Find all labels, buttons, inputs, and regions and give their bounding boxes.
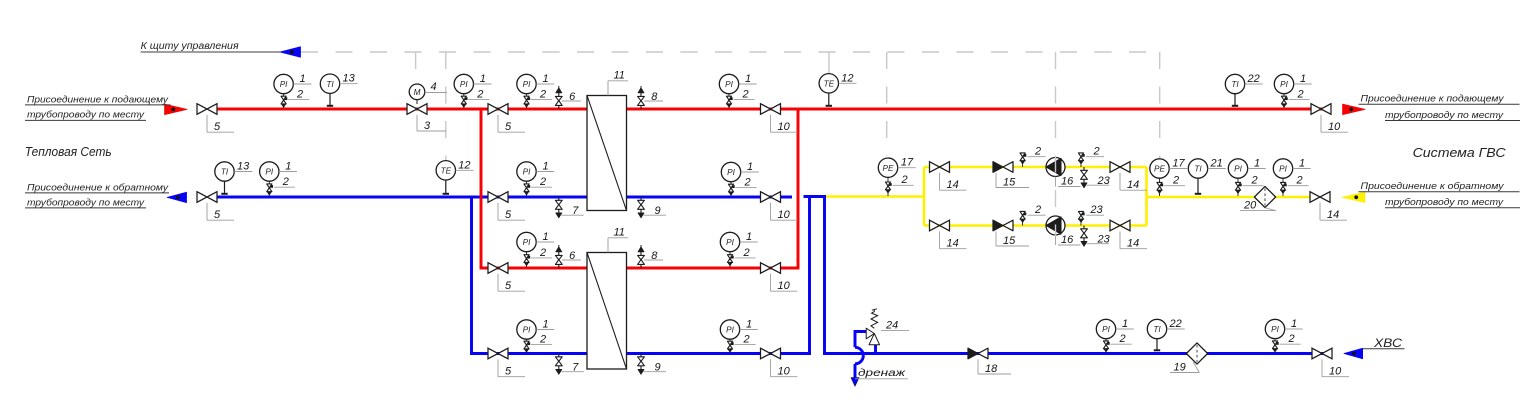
gauge cock (label 2) (524, 255, 529, 259)
svg-text:2: 2 (741, 88, 748, 100)
svg-text:4: 4 (431, 81, 437, 93)
gauge cock (label 2) (885, 182, 890, 186)
pressure gauge PI with labels 1/2 (526, 181, 528, 197)
svg-text:2: 2 (296, 88, 303, 100)
gauge cock (label 2) (1281, 96, 1286, 100)
svg-text:7: 7 (572, 205, 579, 217)
svg-text:21: 21 (1210, 158, 1223, 170)
flow flag: DHW circulation return (1343, 192, 1365, 202)
pipe: DHW return main right (yellow) (1147, 196, 1311, 199)
svg-text:2: 2 (282, 176, 289, 188)
label 23 leader (1087, 184, 1110, 186)
svg-text:2: 2 (539, 247, 546, 259)
svg-text:PI: PI (726, 238, 734, 247)
label 1 leader (536, 329, 554, 331)
pipe: heating return line (blue) (217, 196, 792, 199)
label 10 leader (1320, 115, 1322, 132)
air vent 8 (640, 265, 642, 269)
svg-text:1: 1 (1122, 318, 1128, 330)
label 2 leader (1164, 185, 1185, 187)
svg-text:TI: TI (1231, 80, 1239, 89)
gauge cock (label 2) (1157, 182, 1162, 186)
label 7 leader (561, 371, 584, 373)
svg-text:7: 7 (572, 362, 579, 374)
pressure gauge PI with labels 1/2 (526, 93, 528, 108)
svg-text:2: 2 (742, 333, 749, 345)
svg-text:1: 1 (1291, 318, 1297, 330)
valve 10 (gate valve) (761, 348, 781, 359)
svg-text:15: 15 (1003, 177, 1016, 189)
svg-text:23: 23 (1089, 204, 1103, 216)
gauge cock (label 2) (1235, 182, 1240, 186)
svg-text:PI: PI (265, 168, 273, 177)
valve 10 (gate valve) (761, 263, 781, 274)
pipe: cold water riser + XVC line (blue) (825, 196, 1333, 354)
svg-text:TI: TI (1194, 165, 1202, 174)
control drop to PE pos.17 (left) (886, 52, 888, 156)
label 14 leader (939, 173, 941, 190)
label 17 leader (1169, 168, 1187, 170)
label 22 leader (1245, 83, 1263, 85)
svg-text:2: 2 (476, 88, 483, 100)
svg-text:ХВС: ХВС (1373, 336, 1403, 350)
label 18 leader (977, 359, 979, 374)
svg-text:12: 12 (458, 159, 470, 171)
temperature sensor TE label 12 (828, 92, 830, 106)
svg-text:1: 1 (746, 319, 752, 331)
svg-text:2: 2 (1295, 175, 1302, 187)
svg-text:1: 1 (542, 319, 548, 331)
svg-text:трубопроводу по месту: трубопроводу по месту (27, 197, 145, 208)
label 11 leader (607, 81, 609, 96)
label 2 leader (531, 257, 552, 259)
label 23 leader (1086, 214, 1104, 216)
flow flag: supply from heat network (165, 104, 187, 114)
label 15 leader (995, 231, 997, 246)
label 14 leader (1119, 231, 1121, 248)
air vent 6 (558, 265, 560, 269)
label 2 leader (274, 186, 295, 188)
svg-text:Присоединение к подающему: Присоединение к подающему (1361, 94, 1505, 105)
svg-text:PI: PI (523, 326, 531, 335)
pressure gauge PI with labels 1/2 (526, 339, 528, 353)
drain outlet arrowhead (851, 378, 859, 387)
label 5 leader (497, 359, 499, 376)
label 12 leader (456, 169, 474, 171)
pressure gauge PI with labels 1/2 (728, 93, 730, 108)
label 2 leader (1028, 156, 1046, 158)
label 16 leader (1055, 177, 1057, 187)
svg-text:8: 8 (651, 250, 658, 262)
svg-text:14: 14 (947, 179, 959, 191)
svg-text:1: 1 (285, 161, 291, 173)
label 2 leader (468, 98, 489, 100)
label 1 leader (740, 329, 758, 331)
label 1 leader (1116, 328, 1134, 330)
label 1 leader (1294, 83, 1312, 85)
svg-text:10: 10 (1329, 366, 1342, 378)
pressure sensor PE with labels 17/2 (1159, 178, 1161, 197)
svg-text:TI: TI (221, 168, 229, 177)
valve 5 (gate valve) (197, 192, 217, 203)
label 6 leader (562, 100, 581, 102)
svg-text:10: 10 (1328, 121, 1341, 133)
label 3 leader (416, 115, 418, 131)
control signal bus (dashed) (301, 51, 1160, 53)
svg-text:16: 16 (1061, 234, 1074, 246)
label 17 leader (898, 167, 916, 169)
svg-text:TE: TE (441, 166, 452, 175)
signal line to control panel (141, 51, 280, 53)
label 2 leader (531, 343, 552, 345)
gauge cock 2 on branch (1022, 161, 1024, 167)
pressure gauge PI with labels 1/2 (463, 93, 465, 108)
svg-text:20: 20 (1243, 200, 1257, 212)
label 9 leader (644, 214, 667, 216)
check valve 15 (1003, 162, 1013, 173)
heat exchanger 11 (plate HX) (587, 96, 627, 211)
svg-text:1: 1 (1254, 158, 1260, 170)
svg-text:2: 2 (1034, 145, 1041, 157)
svg-text:PI: PI (725, 80, 733, 89)
label 2 leader (735, 257, 756, 259)
drain valve 23 (1083, 167, 1085, 170)
svg-text:2: 2 (539, 88, 546, 100)
svg-text:PI: PI (523, 238, 531, 247)
label 2 leader (288, 98, 309, 100)
valve 14 (gate valve) (930, 220, 950, 231)
label 2 leader (1086, 156, 1104, 158)
svg-text:11: 11 (614, 70, 625, 82)
gauge cock (label 2) (727, 341, 732, 345)
valve 14 (gate valve) (1110, 162, 1130, 173)
svg-text:13: 13 (237, 161, 250, 173)
flow flag: supply to building (1343, 104, 1365, 114)
valve 5 (gate valve) (488, 263, 508, 274)
label 10 leader (770, 359, 772, 376)
svg-text:11: 11 (614, 227, 625, 239)
pipe: pump manifold right header (yellow) (1145, 167, 1148, 226)
label 2 leader (1111, 343, 1132, 345)
thermometer TI label 13 (329, 93, 331, 107)
valve 14 (gate valve) (1310, 192, 1330, 203)
svg-text:9: 9 (655, 205, 661, 217)
svg-text:PI: PI (1279, 165, 1287, 174)
gauge cock (label 2) (524, 184, 529, 188)
pipe: blue header segment over risers (804, 195, 827, 198)
label 1 leader (741, 171, 759, 173)
valve 14 (gate valve) (1110, 220, 1130, 231)
label 12 leader (839, 82, 857, 84)
svg-text:2: 2 (539, 333, 546, 345)
drain valve 7 (558, 354, 560, 357)
svg-text:дренаж: дренаж (858, 367, 906, 379)
svg-text:TI: TI (326, 80, 334, 89)
pressure gauge PI with labels 1/2 (729, 339, 731, 353)
pressure gauge PI with labels 1/2 (526, 251, 528, 267)
valve 5 (gate valve) (488, 348, 508, 359)
svg-text:5: 5 (505, 366, 512, 378)
pressure gauge PI with labels 1/2 (1283, 93, 1285, 108)
pump 16 (1046, 216, 1065, 235)
thermometer TI label 13 (224, 181, 226, 195)
svg-text:PE: PE (1154, 165, 1165, 174)
filter 20 (strainer) (1254, 186, 1275, 207)
svg-text:PI: PI (280, 80, 288, 89)
label 16 leader (1055, 235, 1057, 245)
label 8 leader (644, 100, 663, 102)
flow flag: to control panel (280, 47, 301, 57)
svg-text:1: 1 (542, 161, 548, 173)
pipe: pump branch bottom (yellow) (924, 224, 1147, 227)
svg-text:14: 14 (1327, 209, 1339, 221)
svg-text:5: 5 (505, 121, 512, 133)
label 13 leader (234, 171, 252, 173)
gauge cock (label 2) (524, 341, 529, 345)
label 8 leader (644, 259, 663, 261)
label 2 leader (1288, 185, 1309, 187)
label 1 leader (536, 83, 554, 85)
svg-text:2: 2 (900, 174, 907, 186)
pipe: pump manifold left header (yellow) (923, 167, 926, 226)
control drop to TE pos.12 (return line) (445, 52, 447, 160)
valve 14 (gate valve) (930, 162, 950, 173)
svg-text:PE: PE (883, 164, 894, 173)
pump 16 (1046, 158, 1065, 177)
svg-text:PI: PI (460, 80, 468, 89)
label 14 leader (1319, 203, 1321, 220)
svg-text:PI: PI (1102, 325, 1110, 334)
svg-text:TI: TI (1153, 325, 1161, 334)
svg-text:2: 2 (742, 247, 749, 259)
svg-text:1: 1 (1299, 158, 1305, 170)
pressure gauge PI with labels 1/2 (283, 93, 285, 108)
svg-text:10: 10 (778, 280, 791, 292)
label 1 leader (740, 241, 758, 243)
valve 5 (gate valve) (488, 104, 508, 115)
svg-text:12: 12 (841, 72, 853, 84)
label 10 leader (770, 115, 772, 132)
svg-text:1: 1 (300, 73, 306, 85)
label 7 leader (561, 214, 584, 216)
svg-text:2: 2 (1172, 175, 1179, 187)
drain valve 23 (1083, 226, 1085, 229)
label 2 leader (1028, 214, 1046, 216)
gauge cock (label 2) (524, 96, 529, 100)
gauge cock (label 2) (727, 255, 732, 259)
svg-text:К щиту управления: К щиту управления (141, 41, 240, 52)
svg-text:22: 22 (1247, 73, 1260, 85)
thermometer TI label 22 (1234, 93, 1236, 106)
valve 10 (gate valve) (1312, 348, 1332, 359)
pressure gauge PI with labels 1/2 (729, 251, 731, 267)
heat exchanger 11 (plate HX) (587, 253, 627, 370)
svg-text:PI: PI (1280, 80, 1288, 89)
label 5 leader (497, 115, 499, 132)
label 1 leader (474, 83, 492, 85)
control drop to valve actuator M (415, 52, 417, 84)
control drop to pumps pos.16 (1055, 52, 1057, 236)
pipe: red riser + HX2 supply run (481, 109, 798, 268)
svg-text:13: 13 (343, 73, 356, 85)
label 13 leader (340, 83, 358, 85)
svg-text:Тепловая Сеть: Тепловая Сеть (25, 145, 112, 159)
svg-text:3: 3 (424, 120, 431, 132)
gauge cock 23 on branch (1080, 220, 1082, 226)
motor actuator M, label 4 (416, 100, 418, 105)
label 2 leader (1289, 98, 1310, 100)
svg-text:10: 10 (778, 209, 791, 221)
pressure gauge PI with labels 1/2 (1237, 178, 1239, 197)
label 5 leader (497, 274, 499, 291)
label 19 leader (1193, 362, 1199, 373)
pipe: DHW circulation main (yellow) (826, 195, 924, 198)
svg-text:16: 16 (1061, 176, 1074, 188)
svg-text:15: 15 (1003, 235, 1016, 247)
svg-text:14: 14 (1127, 179, 1139, 191)
svg-text:1: 1 (542, 231, 548, 243)
gauge cock (label 2) (728, 184, 733, 188)
svg-text:PI: PI (523, 80, 531, 89)
flow flag: cold water inlet (1344, 348, 1363, 358)
gauge cock (label 2) (461, 96, 466, 100)
label 1 leader (293, 83, 311, 85)
svg-text:PI: PI (727, 168, 735, 177)
drain valve 7 (558, 197, 560, 200)
svg-text:2: 2 (539, 176, 546, 188)
svg-text:трубопроводу по месту: трубопроводу по месту (1385, 110, 1504, 121)
svg-text:5: 5 (214, 121, 221, 133)
label 10 leader (1321, 359, 1323, 376)
air vent 8 (640, 106, 642, 110)
pressure gauge PI with labels 1/2 (1274, 338, 1276, 353)
label 1 leader (536, 171, 554, 173)
svg-text:10: 10 (778, 121, 791, 133)
svg-text:1: 1 (480, 73, 486, 85)
gauge cock (label 2) (726, 96, 731, 100)
label 21 leader (1208, 168, 1226, 170)
control drop to PE pos.17 (right) (1159, 52, 1161, 160)
svg-text:2: 2 (1296, 88, 1303, 100)
svg-text:23: 23 (1097, 234, 1111, 246)
label 14 leader (939, 231, 941, 248)
svg-text:5: 5 (505, 280, 512, 292)
label 15 leader (995, 173, 997, 188)
label 2 leader (531, 98, 552, 100)
svg-text:2: 2 (1118, 333, 1125, 345)
label 1 leader (1248, 168, 1266, 170)
svg-text:5: 5 (214, 209, 221, 221)
label 10 leader (770, 203, 772, 220)
label 24 leader (881, 330, 909, 332)
gauge cock (label 2) (267, 184, 272, 188)
svg-text:14: 14 (1127, 238, 1139, 250)
flow flag: return to heat network (167, 192, 186, 202)
label 23 leader (1087, 243, 1110, 245)
gauge cock 2 on branch (1080, 161, 1082, 167)
thermometer TI label 22 (1156, 338, 1158, 351)
safety valve 24 (angle, spring) (866, 328, 874, 339)
label 22 leader (1167, 328, 1185, 330)
label 2 leader (736, 186, 757, 188)
svg-text:6: 6 (569, 91, 576, 103)
label 5 leader (206, 203, 208, 220)
pressure gauge PI with labels 1/2 (268, 181, 270, 197)
gauge cock (label 2) (1280, 182, 1285, 186)
air vent 6 (558, 106, 560, 110)
svg-text:24: 24 (885, 319, 898, 331)
label 6 leader (562, 259, 581, 261)
pressure sensor PE with labels 17/2 (887, 177, 889, 196)
label 9 leader (644, 371, 667, 373)
label 1 leader (1293, 168, 1311, 170)
valve 10 (gate valve) (761, 104, 781, 115)
svg-text:Присоединение к обратному: Присоединение к обратному (1361, 181, 1505, 192)
label 1 leader (739, 83, 757, 85)
svg-text:17: 17 (901, 157, 914, 169)
svg-text:1: 1 (746, 231, 752, 243)
drain valve 9 (640, 197, 642, 200)
valve 10 (gate valve) (761, 192, 781, 203)
pressure gauge PI with labels 1/2 (1282, 178, 1284, 197)
gauge cock (label 2) (1103, 341, 1108, 345)
label 10 leader (770, 274, 772, 291)
svg-text:трубопроводу по месту: трубопроводу по месту (27, 110, 145, 121)
check valve 18 (978, 348, 988, 359)
label 1 leader (536, 241, 554, 243)
svg-text:M: M (414, 88, 421, 97)
svg-text:2: 2 (1092, 145, 1099, 157)
svg-text:2: 2 (743, 176, 750, 188)
svg-text:10: 10 (778, 366, 791, 378)
svg-text:PI: PI (1271, 325, 1279, 334)
svg-text:1: 1 (747, 161, 753, 173)
temperature sensor TE label 12 (445, 179, 447, 194)
pipe: pump branch top (yellow) (924, 166, 1147, 169)
svg-text:5: 5 (505, 209, 512, 221)
label 2 leader (531, 186, 552, 188)
svg-text:PI: PI (523, 168, 531, 177)
pipe: drain branch with hop (blue) (874, 339, 877, 354)
label 11 leader (607, 238, 609, 253)
check valve 15 (1003, 220, 1013, 231)
svg-text:2: 2 (1250, 175, 1257, 187)
label 5 leader (497, 203, 499, 220)
svg-text:19: 19 (1174, 362, 1186, 374)
valve 10 (gate valve) (1311, 104, 1331, 115)
svg-text:14: 14 (947, 238, 959, 250)
svg-text:17: 17 (1172, 158, 1185, 170)
pressure gauge PI with labels 1/2 (1105, 338, 1107, 353)
svg-text:Присоединение к подающему: Присоединение к подающему (27, 94, 169, 105)
drain valve 9 (640, 354, 642, 357)
label 2 leader (893, 184, 914, 186)
label 1 leader (1285, 328, 1303, 330)
control valve 3 (motorized) (407, 104, 427, 115)
svg-text:TE: TE (824, 79, 835, 88)
svg-text:22: 22 (1169, 318, 1182, 330)
svg-text:трубопроводу по месту: трубопроводу по месту (1385, 197, 1504, 208)
svg-text:23: 23 (1097, 175, 1111, 187)
svg-text:Присоединение к обратному: Присоединение к обратному (27, 182, 169, 193)
svg-text:1: 1 (1300, 73, 1306, 85)
label 2 leader (735, 343, 756, 345)
gauge cock 2 on branch (1022, 220, 1024, 226)
svg-text:18: 18 (985, 363, 998, 375)
filter 19 (strainer) (1186, 343, 1207, 364)
svg-text:8: 8 (651, 91, 658, 103)
valve 5 (gate valve) (197, 104, 217, 115)
